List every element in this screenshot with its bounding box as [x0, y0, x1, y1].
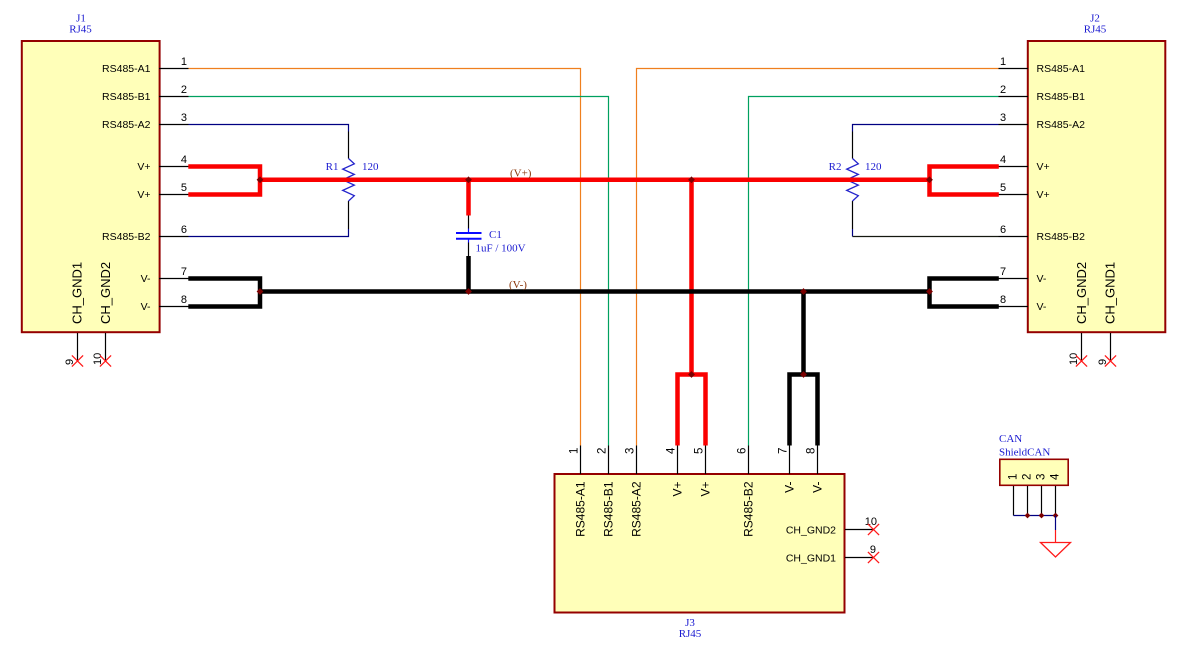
R2 value 120 [865, 161, 882, 173]
resistor R1 [326, 132, 355, 230]
svg-text:V+: V+ [137, 161, 150, 173]
J3 pin 1 (RS485-A1) [569, 446, 588, 537]
svg-text:R1: R1 [326, 161, 339, 173]
J2 pin 8 (V-) [999, 294, 1047, 313]
J2 pin 9 (CH_GND1) no-connect [1097, 262, 1117, 367]
wire RS485-B1: J2.2 to J3.6 (green) [749, 97, 999, 446]
wire V- drop to J3 (thick black) [801, 292, 806, 375]
wire CAN shield bus (navy) [1014, 515, 1056, 517]
svg-text:2: 2 [597, 448, 609, 454]
net label (V-) [509, 279, 527, 291]
svg-text:3: 3 [625, 448, 637, 454]
J3 pin 6 (RS485-B2) [737, 446, 756, 537]
svg-text:(V-): (V-) [509, 279, 527, 291]
svg-text:C1: C1 [489, 229, 502, 241]
junction 5 [257, 288, 264, 295]
J2 pin 1 (RS485-A1) [999, 56, 1086, 75]
svg-text:RS485-A2: RS485-A2 [630, 481, 644, 537]
J3 pin 2 (RS485-B1) [597, 446, 616, 537]
CAN designator [999, 433, 1050, 459]
svg-text:4: 4 [666, 447, 678, 454]
J2 pin 5 (V+) [999, 182, 1050, 201]
J1 pin 9 (CH_GND1) no-connect [64, 262, 84, 367]
J3 pin 3 (RS485-A2) [625, 446, 644, 537]
svg-text:RJ45: RJ45 [1084, 24, 1107, 36]
svg-text:CH_GND2: CH_GND2 [1074, 262, 1089, 324]
svg-text:4: 4 [1000, 154, 1006, 166]
wire V+ bracket J1 pins 4,5 (thick red) [188, 167, 260, 195]
junction 8 [926, 288, 933, 295]
wire C1 to V- trunk (thick black) [466, 256, 471, 294]
svg-text:7: 7 [778, 448, 790, 454]
wire V- bracket J1 pins 7,8 (thick black) [188, 279, 260, 307]
svg-text:RS485-B1: RS485-B1 [102, 91, 151, 103]
svg-text:RS485-A1: RS485-A1 [102, 63, 151, 75]
svg-text:6: 6 [737, 448, 749, 454]
svg-text:2: 2 [181, 84, 187, 96]
svg-text:RS485-B2: RS485-B2 [102, 231, 151, 243]
ground stem (red) [1055, 530, 1057, 543]
J1 pin 5 (V+) [137, 182, 188, 201]
svg-text:8: 8 [1000, 294, 1006, 306]
svg-text:V+: V+ [671, 482, 685, 497]
J2 pin 4 (V+) [999, 154, 1050, 173]
wire R2 to J2.6 (navy stub) [852, 229, 854, 237]
J3 pin 7 (V-) [778, 446, 797, 493]
svg-text:RJ45: RJ45 [679, 628, 702, 640]
connector CAN body [1000, 459, 1068, 485]
svg-text:RS485-B2: RS485-B2 [742, 481, 756, 537]
svg-text:1: 1 [1000, 56, 1006, 68]
svg-text:V+: V+ [1037, 189, 1050, 201]
J1 pin 8 (V-) [141, 294, 189, 313]
svg-text:1: 1 [181, 56, 187, 68]
svg-text:V-: V- [141, 273, 151, 285]
svg-text:RS485-B1: RS485-B1 [1037, 91, 1086, 103]
wire R1 to J1.6 RS485-B2 (navy) [189, 229, 349, 237]
wire J2.3 RS485-A2 to R2 (navy) [853, 125, 999, 132]
svg-text:V-: V- [783, 482, 797, 493]
svg-text:6: 6 [1000, 224, 1006, 236]
net label (V+) [510, 168, 532, 180]
svg-text:1: 1 [1008, 474, 1020, 480]
J3 pin 5 (V+) [694, 446, 713, 497]
svg-text:(V+): (V+) [510, 168, 532, 180]
ground symbol GND [1041, 543, 1071, 558]
connector J2 body [1028, 41, 1166, 332]
svg-text:CAN: CAN [999, 433, 1022, 445]
svg-text:RS485-B2: RS485-B2 [1037, 231, 1086, 243]
C1 value 1uF / 100V [476, 243, 526, 255]
wire V+ bracket J3 pins 4,5 (thick red) [678, 375, 706, 446]
wire V- trunk (thick black) [260, 289, 930, 294]
junction 4 [926, 176, 933, 183]
svg-text:10: 10 [1068, 353, 1080, 365]
svg-text:5: 5 [181, 182, 187, 194]
junction 6 [465, 288, 472, 295]
svg-text:1uF / 100V: 1uF / 100V [476, 243, 526, 255]
svg-text:V-: V- [141, 301, 151, 313]
svg-text:7: 7 [181, 266, 187, 278]
wire V- bracket J2 pins 7,8 (thick black) [930, 279, 999, 307]
svg-text:3: 3 [1000, 112, 1006, 124]
svg-text:1: 1 [569, 448, 581, 454]
svg-text:RS485-A1: RS485-A1 [574, 481, 588, 537]
svg-text:8: 8 [181, 294, 187, 306]
J1 pin 2 (RS485-B1) [102, 84, 188, 103]
J1 pin 4 (V+) [137, 154, 188, 173]
svg-text:3: 3 [1036, 474, 1048, 480]
junction CAN 2 [1039, 513, 1045, 519]
svg-text:5: 5 [694, 448, 706, 454]
svg-text:RS485-A1: RS485-A1 [1037, 63, 1086, 75]
junction 2 [465, 176, 472, 183]
J1 pin 10 (CH_GND2) no-connect [92, 262, 113, 367]
svg-text:120: 120 [865, 161, 882, 173]
svg-text:RS485-B1: RS485-B1 [602, 481, 616, 537]
svg-text:3: 3 [181, 112, 187, 124]
wire V+ bracket J2 pins 4,5 (thick red) [930, 167, 999, 195]
wire to ground (navy) [1055, 516, 1057, 531]
J1 designator [69, 13, 92, 36]
J2 pin 6 (RS485-B2) [999, 224, 1086, 243]
wire R2 to J2.6 RS485-B2 (black) [853, 236, 999, 238]
CAN pin 2 [1022, 474, 1034, 516]
J1 pin 3 (RS485-A2) [102, 112, 188, 131]
svg-text:CH_GND2: CH_GND2 [98, 262, 113, 324]
J3 pin 8 (V-) [806, 446, 825, 493]
connector J3 body [555, 474, 845, 613]
J3 pin 4 (V+) [666, 446, 685, 497]
svg-text:CH_GND1: CH_GND1 [1103, 262, 1118, 324]
J2 pin 7 (V-) [999, 266, 1047, 285]
capacitor C1 [456, 229, 502, 243]
svg-text:CH_GND1: CH_GND1 [786, 553, 836, 565]
svg-text:8: 8 [806, 448, 818, 454]
junction CAN 1 [1025, 513, 1031, 519]
svg-text:V+: V+ [699, 482, 713, 497]
J1 pin 1 (RS485-A1) [102, 56, 188, 75]
svg-text:2: 2 [1000, 84, 1006, 96]
J2 pin 3 (RS485-A2) [999, 112, 1086, 131]
svg-text:4: 4 [1050, 473, 1062, 480]
svg-text:RS485-A2: RS485-A2 [102, 119, 151, 131]
svg-text:V+: V+ [1037, 161, 1050, 173]
junction 10 [800, 371, 807, 378]
wire V- bracket J3 pins 7,8 (thick black) [790, 375, 818, 446]
junction 1 [257, 176, 264, 183]
svg-text:CH_GND2: CH_GND2 [786, 525, 836, 537]
svg-text:V-: V- [1037, 273, 1047, 285]
junction 3 [688, 176, 695, 183]
junction 7 [800, 288, 807, 295]
junction CAN 3 [1053, 513, 1059, 519]
J1 pin 7 (V-) [141, 266, 189, 285]
svg-text:RJ45: RJ45 [69, 24, 92, 36]
resistor R2 [829, 132, 859, 230]
J2 pin 10 (CH_GND2) no-connect [1068, 262, 1089, 367]
CAN pin 1 [1008, 474, 1020, 516]
svg-text:120: 120 [362, 161, 379, 173]
svg-text:CH_GND1: CH_GND1 [70, 262, 85, 324]
junction 9 [688, 371, 695, 378]
svg-text:7: 7 [1000, 266, 1006, 278]
wire RS485-B1: J1.2 to J3.2 (green) [189, 97, 609, 446]
J3 pin 9 (CH_GND1) no-connect [786, 544, 879, 565]
wire V+ drop to J3 (thick red) [689, 180, 694, 375]
connector J1 body [22, 41, 160, 332]
CAN pin 4 [1050, 473, 1062, 516]
J2 designator [1084, 13, 1107, 36]
svg-text:10: 10 [92, 353, 104, 365]
svg-text:V+: V+ [137, 189, 150, 201]
svg-text:V-: V- [1037, 301, 1047, 313]
wire J1.3 RS485-A2 to R1 (navy) [189, 125, 349, 132]
svg-text:5: 5 [1000, 182, 1006, 194]
CAN pin 3 [1036, 474, 1048, 516]
J1 pin 6 (RS485-B2) [102, 224, 188, 243]
J3 designator [679, 617, 702, 640]
svg-text:2: 2 [1022, 474, 1034, 480]
wire RS485-A1: J1.1 to J3.1 (orange) [189, 69, 581, 446]
svg-text:ShieldCAN: ShieldCAN [999, 447, 1050, 459]
wire RS485-A1: J2.1 to J3.3 (orange) [637, 69, 999, 446]
capacitor C1 leads [468, 216, 470, 257]
J3 pin 10 (CH_GND2) no-connect [786, 516, 879, 537]
wire C1 to V+ trunk (thick red) [466, 178, 471, 216]
svg-text:V-: V- [811, 482, 825, 493]
svg-text:RS485-A2: RS485-A2 [1037, 119, 1086, 131]
svg-text:R2: R2 [829, 161, 842, 173]
svg-text:6: 6 [181, 224, 187, 236]
svg-text:4: 4 [181, 154, 187, 166]
R1 value 120 [362, 161, 379, 173]
J2 pin 2 (RS485-B1) [999, 84, 1086, 103]
wire V+ trunk (thick red) [260, 178, 930, 183]
